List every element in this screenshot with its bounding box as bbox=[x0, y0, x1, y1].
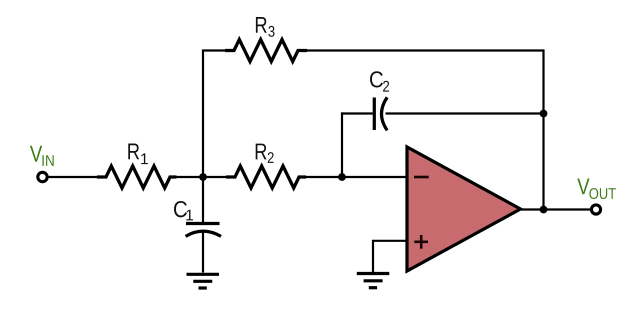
wire right vertical rail down bbox=[542, 49, 544, 209]
wire R3 rail left segment bbox=[202, 49, 226, 51]
wire C1 to ground bbox=[202, 231, 204, 272]
wire node A down to C1 bbox=[202, 177, 204, 224]
wire R2 to node B bbox=[305, 176, 342, 178]
ground at op-amp plus input bbox=[357, 274, 390, 288]
wire node A to R2 bbox=[203, 176, 228, 178]
wire VIN to R1 bbox=[47, 176, 99, 178]
wire C2 right lead to rail bbox=[386, 112, 544, 114]
resistor R1 bbox=[97, 166, 177, 188]
node VIN terminal bbox=[38, 172, 47, 181]
resistor R2 bbox=[226, 166, 306, 188]
resistor R3 bbox=[225, 40, 307, 62]
node VOUT junction dot bbox=[540, 206, 548, 214]
wire op-amp output bbox=[519, 208, 592, 210]
op-amp U1 bbox=[407, 147, 521, 271]
label R3 bbox=[256, 17, 267, 33]
label C2 bbox=[370, 71, 383, 87]
node B junction dot bbox=[338, 173, 346, 181]
op-amp minus symbol bbox=[414, 176, 429, 179]
label R2 bbox=[256, 144, 267, 160]
capacitor C2 bbox=[374, 97, 387, 130]
wire node A up to R3 rail bbox=[202, 51, 204, 178]
wire node B up to C2 bbox=[341, 112, 343, 177]
node A junction dot bbox=[199, 173, 207, 181]
wire R1 to node A bbox=[176, 176, 203, 178]
label VOUT bbox=[577, 178, 589, 194]
label C1 bbox=[174, 201, 187, 217]
label VIN bbox=[30, 146, 42, 162]
node VOUT terminal bbox=[591, 205, 600, 214]
capacitor C1 bbox=[186, 224, 221, 237]
label R1 bbox=[128, 143, 139, 159]
junction dot C2 rail / right rail bbox=[540, 110, 548, 118]
wire op-amp plus input bbox=[373, 241, 407, 273]
wire R3 to right vertical rail bbox=[306, 49, 544, 51]
op-amp plus symbol bbox=[414, 235, 428, 249]
wire node B to op-amp inverting input bbox=[342, 176, 407, 178]
wire C2 left lead bbox=[341, 112, 373, 114]
ground below C1 bbox=[187, 274, 220, 288]
